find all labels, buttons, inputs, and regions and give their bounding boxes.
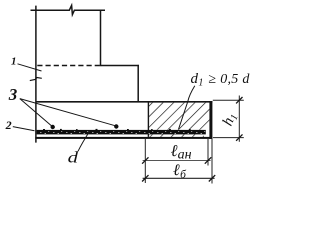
wire ledge top [101, 65, 140, 67]
dimension line l_b [143, 177, 215, 179]
wire top edge of column [31, 5, 106, 14]
hidden edge (dashed) of column inside support [37, 65, 100, 67]
masonry wall hatched section [149, 103, 209, 130]
extension line h1 top [213, 99, 244, 101]
leader for d1 [179, 86, 195, 130]
extension line h1 bottom [213, 137, 244, 139]
extension line left for dimensions [144, 139, 146, 183]
tick h1 bottom [236, 134, 242, 140]
wire ledge right edge [137, 65, 139, 102]
leader for 2 [13, 127, 35, 131]
tick l_an left [142, 157, 148, 163]
dimension line l_an [143, 160, 211, 162]
svg-text:1: 1 [11, 56, 17, 68]
extension line right for l_an [207, 139, 209, 166]
svg-text:d: d [68, 149, 79, 167]
tick h1 top [236, 97, 242, 103]
leader 3 to right anchor [20, 99, 116, 126]
dimension line h1 [238, 96, 240, 142]
tick l_an right [205, 157, 211, 163]
leader for d [78, 131, 90, 152]
leader 3 to left anchor [20, 99, 52, 127]
wire right edge of column [100, 10, 102, 66]
label h1 [220, 111, 241, 129]
anchor rod section left [51, 125, 55, 129]
tick l_b right [209, 175, 215, 181]
mortar surface roughness [43, 129, 191, 130]
wire left edge of column [35, 6, 37, 143]
svg-text:3: 3 [8, 85, 18, 104]
wall section left edge [147, 102, 149, 137]
bottom edge of bearing (thick) [35, 137, 212, 139]
extension line right for l_b [211, 139, 213, 184]
wire top edge of bearing level [36, 101, 212, 103]
anchor rod section right [114, 124, 118, 128]
wall section right edge (thick) [209, 101, 212, 139]
tick l_b left [142, 175, 148, 181]
masonry hatch below mortar band [149, 135, 204, 137]
svg-text:2: 2 [5, 118, 12, 132]
break mark on left column edge [30, 78, 42, 81]
mortar bed (speckled band) [37, 130, 206, 135]
leader for 1 [18, 64, 42, 71]
